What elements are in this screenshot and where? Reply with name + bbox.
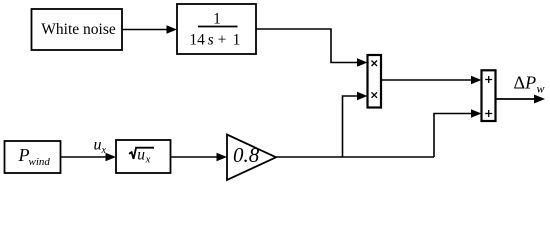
svg-text:w: w: [537, 82, 545, 96]
svg-text:1: 1: [233, 32, 241, 49]
block: sum: [482, 70, 496, 121]
svg-text:14: 14: [189, 32, 205, 49]
block: White noise source: [32, 9, 123, 50]
pin label: x (input 2): [372, 92, 378, 98]
svg-text:0.8: 0.8: [233, 143, 260, 167]
wire: gain output to sum input 2: [434, 109, 482, 157]
pin label: + (input 1): [485, 76, 492, 83]
svg-text:u: u: [94, 136, 102, 153]
wire: P_wind to sqrt block: [61, 153, 117, 162]
block: product (multiply): [368, 55, 382, 108]
svg-text:+: +: [218, 32, 227, 49]
svg-text:x: x: [101, 145, 107, 156]
wire: White noise to transfer function: [122, 25, 177, 34]
node label: delta P_w: [514, 73, 545, 96]
block: gain 0.8 (triangle): [227, 135, 276, 181]
svg-text:x: x: [145, 155, 151, 166]
wire: tap junction to product input 2: [343, 92, 368, 157]
wire: transfer function to product input 1: [256, 29, 368, 67]
wire: product output to sum input 1: [381, 76, 482, 85]
svg-text:wind: wind: [29, 156, 51, 168]
block: P_wind source: [5, 141, 61, 173]
svg-text:ΔP: ΔP: [514, 73, 537, 93]
wire: gain output bus along y=157: [276, 156, 434, 158]
wire: output arrow delta P_w: [496, 95, 546, 104]
svg-text:s: s: [208, 32, 214, 49]
block: square root sqrt(u_x): [116, 140, 171, 173]
pin label: x (input 1): [372, 61, 378, 67]
svg-text:1: 1: [213, 11, 221, 28]
svg-text:White noise: White noise: [41, 21, 116, 38]
block: transfer function 1/(14s+1): [177, 4, 256, 54]
wire: sqrt block to gain: [171, 153, 228, 162]
pin label: + (input 2): [485, 110, 492, 117]
node label: u_x: [94, 136, 107, 155]
svg-text:u: u: [137, 147, 145, 164]
